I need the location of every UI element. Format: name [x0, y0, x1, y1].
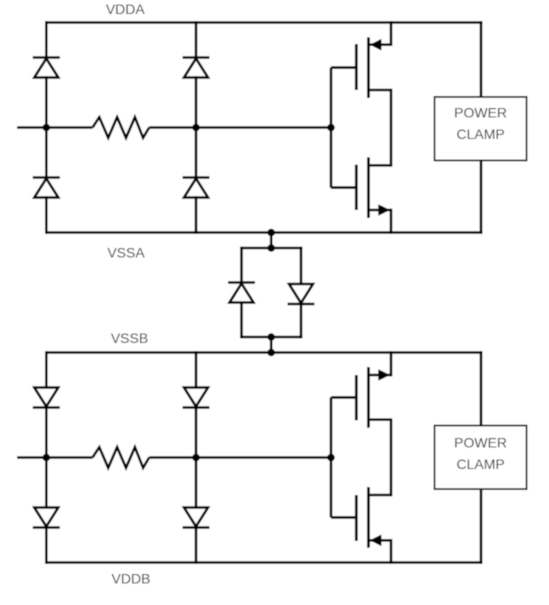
wire M3-M4 drain vertical: [390, 420, 393, 495]
wire bridge top: [242, 247, 302, 250]
svg-text:VSSB: VSSB: [111, 330, 148, 346]
transistor M4 (PMOS, bottom-lower): [356, 487, 391, 548]
node VSSA bridge junction: [267, 229, 275, 237]
diode D3 (pointing up): [183, 58, 210, 78]
wire bridge to VSSB stub: [270, 337, 273, 353]
diode D7 (pointing down): [183, 388, 210, 408]
wire gate tap M2: [331, 186, 356, 189]
wire col1 B mid segment: [45, 408, 48, 508]
node VSSB bridge junction: [267, 349, 275, 357]
diode D1 (pointing up): [33, 58, 60, 78]
wire pad B right segment: [149, 456, 331, 459]
power clamp U2 box: [435, 426, 527, 490]
svg-text:POWER: POWER: [454, 105, 507, 121]
diode D6 (pointing down): [33, 508, 60, 528]
wire pad B left segment: [17, 456, 93, 459]
transistor M3 (NMOS, bottom-upper): [356, 367, 391, 428]
node pad B col1 junction: [43, 454, 51, 462]
node pad A col2 junction: [192, 124, 200, 132]
wire bridge bottom: [242, 336, 302, 339]
wire col2 A top segment: [195, 23, 198, 58]
wire pad A right segment: [149, 126, 331, 129]
VSSB rail wire: [46, 351, 481, 354]
VDDA rail wire: [46, 21, 481, 24]
wire col1 B top segment: [45, 353, 48, 388]
wire gate tap M4: [331, 516, 356, 519]
wire M1 source to VDDA rail: [390, 23, 393, 45]
svg-text:VDDB: VDDB: [112, 571, 151, 587]
svg-text:VDDA: VDDA: [106, 1, 146, 17]
VDDB rail wire: [46, 561, 481, 564]
power clamp U1 box: [435, 97, 527, 160]
svg-text:VSSA: VSSA: [107, 245, 145, 261]
wire col2 B top segment: [195, 353, 198, 388]
wire M2 source to VSSA rail: [390, 210, 393, 233]
wire gate bus B: [330, 397, 333, 517]
svg-text:CLAMP: CLAMP: [456, 126, 504, 142]
wire M3 source to VSSB rail: [390, 353, 393, 376]
wire gate bus A: [330, 68, 333, 188]
diode D4 (pointing up): [183, 178, 210, 198]
diode D2 (pointing up): [33, 178, 60, 198]
wire gate tap M3: [331, 396, 356, 399]
resistor R1: [93, 117, 150, 138]
wire bridge left top segment: [240, 248, 243, 283]
resistor R2: [93, 447, 150, 468]
diode D8 (pointing down): [183, 508, 210, 528]
wire bridge right bottom segment: [300, 304, 303, 337]
wire M4 source to VDDB rail: [390, 540, 393, 562]
wire right vertical B: [480, 353, 483, 563]
wire right vertical A: [480, 23, 483, 233]
wire bridge left bottom segment: [240, 303, 243, 337]
wire col2 A mid segment: [195, 78, 198, 178]
diode D10 (pointing down): [288, 284, 315, 304]
diode D9 (pointing up): [228, 283, 255, 303]
wire pad A left segment: [17, 126, 93, 129]
node bridge bottom junction: [267, 333, 275, 341]
node pad B col2 junction: [192, 454, 200, 462]
wire col2 B mid segment: [195, 408, 198, 508]
svg-text:CLAMP: CLAMP: [456, 456, 504, 472]
transistor M1 (PMOS, top): [356, 37, 391, 98]
wire VSSA to bridge stub: [270, 233, 273, 249]
wire col1 A top segment: [45, 23, 48, 58]
node pad A col1 junction: [43, 124, 51, 132]
transistor M2 (NMOS, top): [356, 157, 391, 218]
diode D5 (pointing down): [33, 388, 60, 408]
node pad B gate-bus junction: [327, 454, 335, 462]
wire col2 A bottom segment: [195, 198, 198, 233]
VSSA rail wire: [46, 231, 481, 234]
wire M1-M2 drain vertical: [390, 90, 393, 165]
wire col1 B bottom segment: [45, 528, 48, 563]
wire bridge right top segment: [300, 248, 303, 284]
wire col2 B bottom segment: [195, 528, 198, 563]
wire col1 A bottom segment: [45, 198, 48, 233]
svg-text:POWER: POWER: [454, 435, 507, 451]
node pad A gate-bus junction: [327, 124, 335, 132]
node bridge top junction: [267, 244, 275, 252]
wire gate tap M1: [331, 66, 356, 69]
wire col1 A mid segment: [45, 78, 48, 178]
